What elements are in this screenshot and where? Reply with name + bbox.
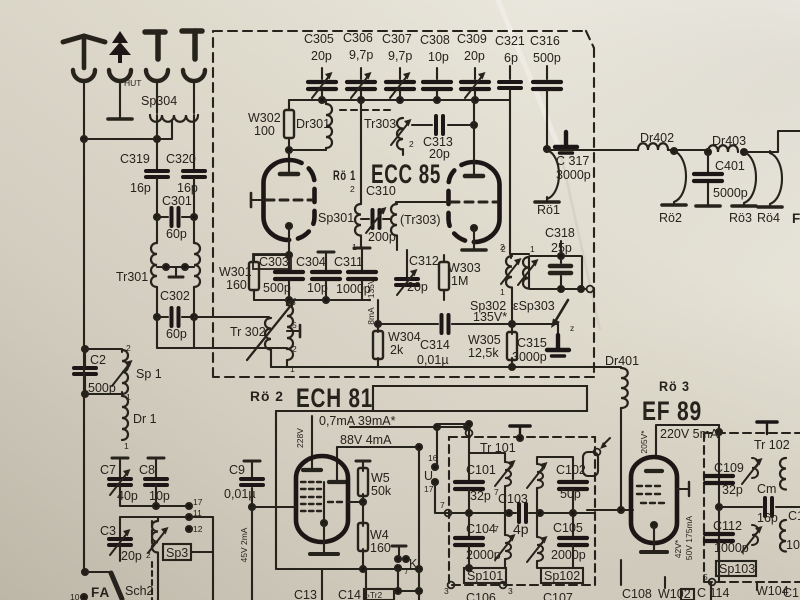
- terminal dot U2: [432, 479, 438, 485]
- variable inductor upper left: [469, 453, 516, 513]
- svg-text:Tr 102: Tr 102: [754, 438, 790, 452]
- junction dot: [286, 297, 292, 303]
- terminal dot bus1: [186, 503, 192, 509]
- svg-text:1: 1: [530, 244, 535, 254]
- internal lead: [323, 482, 325, 523]
- resistor W304: [373, 327, 383, 367]
- wire stub FA: [120, 597, 122, 600]
- resistor W5: [356, 461, 370, 502]
- svg-text:C307: C307: [382, 32, 412, 46]
- wire tube to divider: [348, 501, 363, 503]
- junction dot: [716, 504, 722, 510]
- svg-text:(Tr303): (Tr303): [400, 213, 441, 227]
- capacitor C311: [348, 272, 376, 300]
- svg-text:2k: 2k: [390, 343, 404, 357]
- cathode lead EF89: [653, 525, 655, 551]
- junction dot FA node: [82, 569, 88, 575]
- capacitor C9: [241, 461, 263, 507]
- junction dot: [537, 510, 543, 516]
- cathode dot: [321, 520, 327, 526]
- wire W302/Dr301 bottom link: [289, 149, 326, 151]
- svg-text:0,01µ: 0,01µ: [417, 353, 449, 367]
- wire left column down to C319: [156, 115, 158, 169]
- svg-text:50V 175mA: 50V 175mA: [684, 515, 694, 560]
- junction dot: [154, 314, 160, 320]
- svg-text:K: K: [409, 557, 418, 571]
- resistor W302: [284, 100, 294, 150]
- tap mark 5: [287, 320, 300, 337]
- label C303: [253, 254, 291, 269]
- wire C3 bottom lead: [119, 545, 121, 561]
- terminal bar above C8: [148, 458, 164, 477]
- svg-text:3: 3: [508, 586, 513, 596]
- svg-text:ECH 81: ECH 81: [296, 383, 373, 413]
- wire cathode bus: [254, 299, 370, 301]
- variable inductor lower right: [527, 513, 573, 568]
- wire tuner out: [581, 366, 621, 368]
- coil Dr1: [122, 396, 128, 440]
- variable arrow Sp1: [112, 360, 133, 386]
- junction dot anode node: [286, 147, 292, 153]
- svg-text:1: 1: [500, 287, 505, 297]
- wire Sp3 down: [157, 553, 159, 600]
- variable arrow Tr302: [247, 298, 296, 360]
- capacitor C8: [145, 479, 167, 485]
- svg-text:2: 2: [409, 139, 414, 149]
- svg-text:12: 12: [193, 524, 203, 534]
- svg-text:C112: C112: [713, 519, 742, 533]
- svg-text:20p: 20p: [121, 549, 142, 563]
- transformer Tr301 right winding: [194, 243, 200, 287]
- svg-text:C311: C311: [334, 255, 363, 269]
- capacitor Cm (series): [765, 498, 772, 516]
- svg-text:Cm: Cm: [757, 482, 776, 496]
- resistor W303: [439, 255, 449, 300]
- junction dot C302 right: [191, 314, 197, 320]
- anode supply loop box: [373, 386, 587, 411]
- svg-text:3: 3: [291, 297, 296, 307]
- box Sp102: [541, 568, 583, 583]
- connector pin 3: [145, 32, 165, 59]
- wire C302 loop to bottom rail: [157, 317, 194, 348]
- svg-text:Dr401: Dr401: [605, 354, 639, 368]
- svg-text:2: 2: [501, 244, 506, 254]
- svg-text:εSp303: εSp303: [513, 299, 555, 313]
- svg-text:C308: C308: [420, 33, 450, 47]
- junction dot: [360, 566, 366, 572]
- choke Dr403: [708, 145, 738, 152]
- svg-text:C304: C304: [296, 255, 326, 269]
- wire stub C14: [365, 569, 367, 600]
- svg-text:7: 7: [494, 524, 499, 534]
- wire K down: [398, 568, 419, 591]
- ECH box left edge: [275, 411, 277, 569]
- svg-text:500p: 500p: [263, 281, 291, 295]
- variable inductor upper right: [527, 457, 573, 513]
- wire grid EF89: [587, 509, 633, 511]
- antenna symbol A1: [63, 36, 105, 68]
- grid dash right: [328, 501, 343, 503]
- capacitor C310 (variable series): [361, 207, 390, 233]
- coil Tr102 right lower: [780, 520, 786, 552]
- tube Ro1 triode B outline: [449, 162, 500, 242]
- capacitor C309 (trimmer): [461, 68, 489, 100]
- socket cup 2: [109, 70, 131, 81]
- svg-text:10p: 10p: [149, 489, 170, 503]
- junction dot: [395, 588, 401, 594]
- wire x419 column: [418, 447, 420, 600]
- transformer Tr302 winding: [287, 303, 293, 360]
- switch Sch2 blade: [111, 573, 122, 599]
- heptode anode lead: [336, 447, 338, 482]
- svg-text:z: z: [570, 323, 574, 333]
- capacitor C312 (trimmer): [396, 250, 418, 295]
- svg-text:2000p: 2000p: [551, 548, 586, 562]
- svg-text:1: 1: [290, 364, 295, 374]
- capacitor C305 (trimmer): [308, 68, 336, 100]
- wire C3 top lead: [119, 517, 121, 537]
- terminal dot U1: [432, 464, 438, 470]
- capacitor C319: [146, 171, 168, 177]
- junction dot: [466, 510, 472, 516]
- junction dot supply: [716, 429, 722, 435]
- junction dot: [434, 424, 440, 430]
- svg-text:16: 16: [428, 453, 438, 463]
- svg-text:88V 4mA: 88V 4mA: [340, 433, 392, 447]
- svg-text:9,7p: 9,7p: [388, 49, 412, 63]
- terminal open circle: [587, 286, 594, 293]
- capacitor C7 (variable): [109, 469, 131, 495]
- wire supply rail 1: [276, 411, 469, 427]
- wire C2 leads: [84, 349, 86, 394]
- svg-text:W304: W304: [388, 330, 421, 344]
- svg-text:EF 89: EF 89: [642, 396, 702, 426]
- variable inductor arrows Tr102 lower: [742, 525, 763, 552]
- svg-text:7: 7: [440, 500, 445, 510]
- svg-text:C109: C109: [714, 461, 744, 475]
- svg-text:W303: W303: [448, 261, 481, 275]
- junction dot: [375, 321, 381, 327]
- svg-text:0,01µ: 0,01µ: [224, 487, 256, 501]
- svg-text:C 317: C 317: [556, 154, 589, 168]
- junction dot: [741, 149, 747, 155]
- svg-text:Rö4: Rö4: [757, 211, 780, 225]
- Tr101 box dashed: [449, 437, 595, 585]
- capacitor C316: [533, 66, 561, 149]
- transformer Tr302 left winding: [265, 318, 271, 367]
- svg-text:C305: C305: [304, 32, 334, 46]
- wire C314 row: [378, 323, 512, 325]
- wire C9 to tube grid: [252, 506, 296, 508]
- wire Tr101 mid bus: [451, 512, 595, 514]
- svg-text:60p: 60p: [166, 227, 187, 241]
- wire EF89 supply rail: [656, 425, 719, 458]
- svg-text:3000p: 3000p: [512, 350, 547, 364]
- svg-text:160: 160: [370, 541, 391, 555]
- svg-text:500p: 500p: [88, 381, 116, 395]
- svg-text:C319: C319: [120, 152, 150, 166]
- cathode dot EF89: [651, 522, 657, 528]
- wire heater rail: [547, 149, 638, 151]
- svg-text:C9: C9: [229, 463, 245, 477]
- terminal bar above C7: [112, 458, 128, 477]
- antenna symbol A2 (earth antenna): [109, 31, 131, 63]
- svg-text:3000p: 3000p: [556, 168, 591, 182]
- svg-text:C312: C312: [409, 254, 439, 268]
- svg-text:10: 10: [786, 538, 800, 552]
- svg-text:C302: C302: [160, 289, 190, 303]
- svg-text:C14: C14: [338, 588, 361, 600]
- coil Sp301: [355, 204, 361, 248]
- svg-text:C301: C301: [162, 194, 192, 208]
- transformer Tr301 left winding: [151, 243, 157, 287]
- resistor W4: [358, 502, 368, 569]
- svg-text:2: 2: [126, 343, 131, 353]
- wire to switch: [85, 571, 109, 573]
- junction dot: [466, 565, 472, 571]
- wire node to Tr301: [156, 217, 158, 242]
- svg-text:C314: C314: [420, 338, 450, 352]
- box Sp103: [716, 561, 756, 576]
- svg-text:C306: C306: [343, 31, 373, 45]
- wire C319 to node: [156, 178, 158, 217]
- svg-text:C3: C3: [100, 524, 116, 538]
- anode bar triode B: [465, 174, 483, 179]
- terminal dot 10: [81, 594, 87, 600]
- capacitor C314 (series): [442, 315, 449, 333]
- svg-text:16p: 16p: [757, 511, 778, 525]
- svg-text:W5: W5: [371, 471, 390, 485]
- svg-text:10: 10: [70, 592, 80, 600]
- svg-text:42V*: 42V*: [673, 539, 683, 558]
- svg-text:C108: C108: [622, 587, 652, 600]
- svg-text:160: 160: [226, 278, 247, 292]
- junction dot: [506, 510, 512, 516]
- junction dot: [360, 499, 366, 505]
- svg-text:2: 2: [292, 344, 297, 354]
- grid lead triode A: [251, 193, 264, 207]
- junction dot: [509, 364, 515, 370]
- capacitor C313 (series): [412, 116, 477, 134]
- cathode lead: [323, 523, 325, 553]
- capacitor C303: [275, 255, 303, 300]
- wire main left column down: [83, 139, 85, 572]
- junction dot: [319, 97, 325, 103]
- junction dot: [416, 444, 422, 450]
- svg-text:C1: C1: [783, 586, 799, 600]
- wire C9 node down: [251, 507, 253, 600]
- wire oscillator column: [509, 100, 511, 254]
- small box bottom: [681, 589, 694, 600]
- junction dot: [416, 566, 422, 572]
- tube Ro3 EF89 outline: [631, 457, 677, 543]
- svg-text:C2: C2: [90, 353, 106, 367]
- junction dot: [464, 424, 470, 430]
- feedthrough capacitor C317: [535, 150, 559, 202]
- wire C315 link: [512, 323, 558, 325]
- ground bar cathode B: [462, 249, 486, 251]
- svg-text:W4: W4: [370, 528, 389, 542]
- svg-text:C315: C315: [517, 336, 547, 350]
- svg-text:500p: 500p: [533, 51, 561, 65]
- svg-text:135V*: 135V*: [473, 310, 507, 324]
- svg-text:C107: C107: [543, 591, 573, 600]
- svg-text:6p: 6p: [504, 51, 518, 65]
- capacitor C102: [559, 457, 587, 513]
- wire bias node: [377, 300, 379, 327]
- svg-text:W305: W305: [468, 333, 501, 347]
- junction dot: [153, 503, 159, 509]
- wire cathode link: [254, 254, 289, 256]
- coil Sp3: [148, 517, 169, 553]
- terminal mark 5: [703, 572, 715, 585]
- transformer Tr301 center link: [157, 264, 194, 277]
- svg-text:C310: C310: [366, 184, 396, 198]
- svg-text:5: 5: [292, 320, 297, 330]
- svg-text:11: 11: [193, 508, 202, 518]
- svg-text:205V*: 205V*: [639, 430, 649, 454]
- T symbol above Tr101: [510, 426, 530, 438]
- screen stub: [677, 488, 689, 490]
- svg-text:C318: C318: [545, 226, 575, 240]
- svg-text:Tr303: Tr303: [364, 117, 396, 131]
- svg-text:C8: C8: [139, 463, 155, 477]
- svg-text:U: U: [424, 469, 433, 483]
- wire ECH bottom rail: [276, 568, 419, 570]
- svg-text:›Tr2: ›Tr2: [367, 590, 383, 600]
- junction dot: [286, 252, 292, 258]
- svg-text:4p: 4p: [513, 521, 529, 537]
- capacitor C105: [559, 513, 587, 568]
- anode bar triode A: [280, 172, 298, 177]
- wire stub C13: [321, 569, 323, 600]
- wire antenna 1 down: [83, 81, 85, 139]
- junction dot: [249, 504, 255, 510]
- svg-text:228V: 228V: [295, 428, 305, 448]
- box Sp3: [163, 544, 191, 560]
- cathode triode B: [471, 225, 477, 249]
- paper crease shadow: [560, 150, 600, 330]
- wire antenna 2 stub: [119, 81, 121, 117]
- svg-text:2: 2: [146, 550, 151, 560]
- wire to Sp1: [85, 349, 122, 394]
- terminal K group: [392, 546, 418, 576]
- svg-text:C13: C13: [294, 588, 317, 600]
- cathode triode A: [286, 223, 292, 255]
- cathode ground bar EF89: [641, 550, 667, 554]
- wire top bus: [289, 99, 510, 101]
- box Sp101: [464, 568, 506, 583]
- grid lead triode B: [396, 202, 450, 204]
- socket cup 1: [73, 70, 95, 81]
- svg-text:2: 2: [350, 184, 355, 194]
- anode bar EF89: [646, 469, 662, 473]
- junction dot: [81, 136, 87, 142]
- svg-text:12,5k: 12,5k: [468, 346, 499, 360]
- wire Tr302 bottom: [286, 360, 288, 367]
- svg-text:Sp101: Sp101: [467, 569, 503, 583]
- coil Sp304: [150, 115, 198, 122]
- junction dot C318 out: [578, 286, 584, 292]
- paper crease highlight: [498, 0, 560, 150]
- heptode anode bar: [329, 480, 345, 484]
- svg-text:C101: C101: [466, 463, 496, 477]
- arrow z (tuning): [551, 300, 574, 333]
- wire link to C318: [511, 253, 529, 255]
- wire cup3 down: [156, 81, 158, 113]
- mechanical link dashed: [340, 109, 392, 111]
- svg-text:C401: C401: [715, 159, 745, 173]
- variable inductor lower left: [469, 513, 516, 568]
- svg-text:Sp304: Sp304: [141, 94, 177, 108]
- resistor W305: [507, 324, 517, 367]
- svg-text:1M: 1M: [451, 274, 468, 288]
- oscillator section column: Sp302: [506, 254, 512, 324]
- terminal 7: [440, 500, 451, 516]
- grid triode B (dashed): [451, 201, 497, 204]
- coil Sp1: [122, 350, 128, 394]
- wire C320 down: [193, 178, 195, 243]
- oscillator coil Tr303: [361, 100, 412, 204]
- coil Sp303: [518, 257, 539, 289]
- svg-text:C102: C102: [556, 463, 586, 477]
- wire bottom rail of tuner: [271, 366, 581, 368]
- feedthrough capacitor Ro3: [732, 152, 756, 206]
- capacitor C321: [499, 66, 521, 100]
- capacitor C112: [705, 534, 733, 563]
- svg-text:C 114: C 114: [697, 586, 729, 600]
- mechanical link dashed Sp3: [151, 521, 153, 600]
- terminal dot rail2: [186, 514, 192, 520]
- svg-text:C316: C316: [530, 34, 560, 48]
- svg-text:10p: 10p: [307, 281, 328, 295]
- junction dot: [509, 321, 515, 327]
- svg-text:60p: 60p: [166, 327, 187, 341]
- wire Tr301 right down: [193, 287, 195, 317]
- terminal open circle with arrow: [594, 438, 610, 455]
- junction dot: [323, 297, 329, 303]
- svg-text:C303: C303: [259, 255, 289, 269]
- anode lead triode B up to bus: [473, 100, 475, 176]
- svg-text:20p: 20p: [311, 49, 332, 63]
- capacitor C101: [455, 482, 483, 513]
- svg-text:3: 3: [444, 586, 449, 596]
- wire Sp3 box to right line: [191, 517, 213, 600]
- junction dot: [82, 346, 88, 352]
- svg-text:Tr 302: Tr 302: [230, 325, 266, 339]
- tube Ro1 triode A outline: [264, 160, 315, 240]
- junction dot: [154, 136, 160, 142]
- junction dot: [466, 421, 472, 427]
- svg-text:C105: C105: [553, 521, 583, 535]
- junction dot: [434, 97, 440, 103]
- wire C318 out: [561, 288, 586, 290]
- svg-text:17: 17: [424, 484, 434, 494]
- capacitor C2: [74, 368, 96, 374]
- wire C7/C8 bottom bus: [120, 485, 189, 506]
- wire U terminals: [436, 427, 438, 467]
- svg-text:20p: 20p: [464, 49, 485, 63]
- terminal bar above C304: [318, 252, 334, 270]
- choke Dr401: [621, 368, 628, 510]
- svg-text:1: 1: [124, 441, 129, 451]
- wire cup4 down: [193, 81, 195, 113]
- junction dot: [82, 391, 88, 397]
- coil Tr303 secondary: [391, 204, 397, 250]
- svg-text:100: 100: [254, 124, 275, 138]
- connector pin 4: [182, 31, 202, 59]
- junction dot node C301: [154, 214, 160, 220]
